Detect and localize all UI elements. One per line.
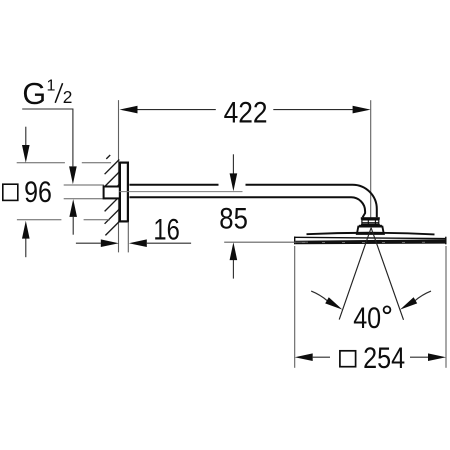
dimension square-96 extension lines <box>17 163 111 220</box>
wire: wall line vertical <box>118 100 120 252</box>
svg-text:254: 254 <box>363 342 405 375</box>
svg-text:96: 96 <box>24 176 52 209</box>
dimension G 1/2 leader <box>22 109 73 166</box>
shower arm centre line <box>119 191 242 193</box>
wire: plate front face extension down to 16 dimension <box>127 222 129 253</box>
shower head top (dome back line) <box>307 233 435 235</box>
dimension 422 line <box>137 109 352 111</box>
dimension 16 line <box>76 242 101 244</box>
shower head spray face band <box>295 239 445 244</box>
node: nipple extension lines (G 1/2 reference) <box>64 184 104 186</box>
svg-text:85: 85 <box>219 203 248 236</box>
shower head rim <box>295 237 446 238</box>
mount plate (wall escutcheon) <box>120 163 128 222</box>
dimension 40 degree leader left <box>311 291 327 301</box>
dimension 40 degree leader right <box>415 291 431 301</box>
dimension 85 arrows <box>232 154 234 173</box>
svg-text:422: 422 <box>224 96 268 129</box>
wire: head bottom extension line for 85 <box>224 241 308 243</box>
shower arm tube <box>129 185 376 218</box>
dimension square-254 line <box>313 356 330 358</box>
spray cone left line <box>339 228 371 320</box>
spray cone right line <box>371 228 403 320</box>
dimension square-96 arrows <box>25 127 27 146</box>
label square 254 <box>340 351 356 367</box>
wire: head edge extension lines for square-254 <box>294 246 296 368</box>
inlet nipple G1/2 <box>104 187 122 199</box>
label square 96 <box>3 184 18 200</box>
connector flange bar <box>361 224 380 225</box>
svg-text:1: 1 <box>47 78 56 95</box>
svg-text:2: 2 <box>63 87 73 107</box>
svg-text:G: G <box>22 77 46 111</box>
connector base trapezoid <box>357 227 384 234</box>
wall hatching <box>105 155 120 235</box>
svg-text:40: 40 <box>353 302 381 335</box>
connector nut on arm end <box>361 217 380 220</box>
wire: extension line right (arm centre vertical for 422) <box>370 100 372 219</box>
svg-text:16: 16 <box>153 213 179 246</box>
